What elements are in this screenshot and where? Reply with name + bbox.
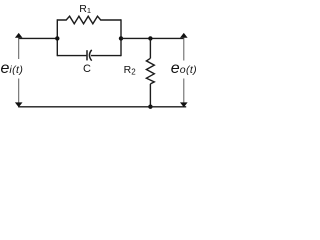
label eo(t) with white backing <box>169 61 202 79</box>
wire: input top wire from left rail to node A <box>18 37 57 39</box>
capacitor C: curved right plate <box>89 50 91 61</box>
node B (junction dot, right of parallel block) <box>119 36 123 40</box>
wire: capacitor branch left lead <box>57 55 86 57</box>
arrowhead: input rail top (up) <box>15 33 23 38</box>
wire: bottom return wire <box>18 106 186 108</box>
resistor R2 (vertical zigzag) <box>146 58 154 84</box>
label ei(t) with white backing <box>0 59 26 79</box>
capacitor C: straight left plate <box>86 50 88 60</box>
wire: top wire from node B to output rail <box>121 37 184 39</box>
wire: R2 bottom lead <box>149 84 151 107</box>
wire: capacitor branch right lead <box>91 55 121 57</box>
resistor R1 (top branch zigzag) <box>57 16 121 24</box>
input voltage rail (thin line) <box>18 36 20 104</box>
wire: R2 top lead <box>149 38 151 58</box>
node: R2 top tap junction dot <box>148 36 152 40</box>
arrowhead: input rail bottom (down) <box>15 102 23 107</box>
arrowhead: output rail bottom (down) <box>180 102 188 107</box>
output voltage rail (thin line) <box>183 36 185 104</box>
wire: left vertical of parallel loop <box>56 19 58 56</box>
node: bottom junction dot at R2 <box>148 105 152 109</box>
arrowhead: output rail top (up) <box>180 33 188 38</box>
node A (junction dot, left of parallel block) <box>55 36 59 40</box>
wire: right vertical of parallel loop <box>120 19 122 56</box>
svg-text:C: C <box>83 63 91 75</box>
